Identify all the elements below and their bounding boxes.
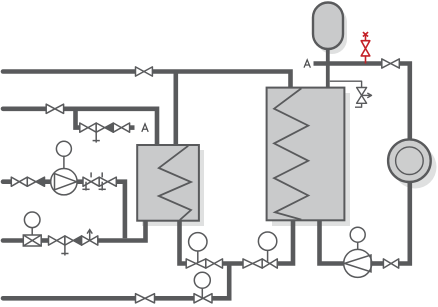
- pump P1 (left circulation pump): [51, 169, 77, 195]
- drain stem, pump row valve 1: [82, 182, 89, 191]
- wire: bottom return row right segment joining junction: [212, 296, 232, 301]
- safety valve (red): [361, 32, 370, 63]
- check valve, pump row: [27, 177, 44, 186]
- wire: pump row after valves, elbow down to strainer row: [116, 182, 125, 239]
- wire: branch from R2 down to bypass row A: [76, 109, 80, 128]
- sensor above pump P2: [350, 227, 365, 249]
- wire: junction down to bottom return row: [227, 264, 232, 299]
- wire: top primary supply pipe R1 left segment: [3, 69, 136, 74]
- wire: bypass row A stub between valves and label A: [130, 125, 135, 130]
- differential pressure relief valve: [330, 81, 372, 107]
- wire: pump to valve segment: [372, 261, 384, 266]
- shadow of expansion vessel: [317, 7, 347, 54]
- pump P2 (right circulation pump): [344, 249, 372, 277]
- wire: R1 right segment with elbow down to big HX top-left port: [152, 72, 290, 89]
- shadow of big heat exchanger: [272, 93, 350, 226]
- valve on strainer row: [49, 236, 65, 245]
- valve 2 right cluster: [262, 259, 277, 268]
- strainer / meter box: [23, 235, 41, 246]
- wire: expansion vessel stem down to big HX top-right port: [326, 44, 330, 89]
- wire: pump row pump to first valve: [77, 179, 83, 184]
- wire: pump row between check valve and pump: [45, 179, 53, 184]
- check valve on bypass row A: [96, 123, 113, 132]
- valve on bottom return row: [136, 294, 155, 303]
- valve on second pipe R2: [46, 104, 63, 113]
- valve 1 on bypass row A: [80, 123, 96, 132]
- wire: pump row start stub: [3, 179, 11, 184]
- wire: bottom return row between valves: [155, 296, 195, 301]
- wire: valve row right segment, elbow up to big HX bottom-left port: [277, 220, 293, 263]
- valve stem tick above, pump row valve 2: [101, 172, 103, 177]
- balancing valve 2 after pump: [99, 177, 116, 186]
- wire: tee branch from R1 down to small HX top-right port: [174, 72, 179, 146]
- valve after pump P2: [383, 259, 398, 268]
- wire: valve row segment between clusters: [223, 261, 244, 266]
- check valve on strainer row: [65, 236, 82, 245]
- wire: strainer row start stub: [3, 238, 23, 243]
- wire: second pipe R2 left segment: [3, 107, 46, 112]
- wire: top pipe R0 from label A to valve: [314, 61, 382, 66]
- valve 1 left cluster: [186, 259, 206, 268]
- small heat exchanger: [137, 145, 199, 221]
- valve 1 right cluster: [243, 259, 262, 268]
- air vent arrow: [87, 230, 92, 241]
- drain stem on strainer row: [61, 236, 68, 256]
- valve stem tick above, pump row valve 1: [90, 172, 92, 177]
- wire: small HX bottom-right port down, elbow right into valve row: [180, 221, 187, 264]
- shadow of circulator circle: [394, 146, 437, 189]
- valve on top pipe R1: [136, 67, 153, 76]
- drain stem on bypass row A: [93, 123, 100, 143]
- sensor above right valve cluster: [258, 232, 276, 264]
- wire: bottom return row left segment: [3, 296, 136, 301]
- wire: big HX bottom-right port down, elbow right to pump: [320, 220, 345, 263]
- shadow of small heat exchanger: [142, 150, 204, 226]
- big heat exchanger: [267, 88, 345, 221]
- vent valve on strainer row: [82, 236, 98, 245]
- valve before check, pump row: [11, 177, 27, 186]
- balancing valve 1 after pump: [83, 177, 99, 186]
- sensor above left valve cluster: [189, 233, 207, 264]
- label A (bypass): [142, 124, 148, 132]
- expansion vessel: [313, 3, 343, 50]
- drain stem, pump row valve 2: [99, 182, 106, 191]
- valve 2 on bypass row A: [113, 123, 129, 132]
- sensor above pump P1: [56, 141, 71, 168]
- valve with sensor on bottom return row: [194, 294, 212, 303]
- valve on top pipe R0: [382, 59, 400, 68]
- circulator / heat source circle: [388, 139, 431, 182]
- valve 2 left cluster: [206, 259, 223, 268]
- wire: strainer row between strainer and valve: [41, 238, 48, 243]
- wire: R2 right segment with elbow down to small HX top-left port: [64, 109, 157, 146]
- sensor above bottom return valve: [194, 272, 210, 298]
- sensor above strainer: [24, 212, 40, 235]
- label A (top): [304, 60, 310, 68]
- wire: after valve, elbow up through circulator to top pipe R0: [399, 64, 410, 264]
- wire: strainer row after vent valve, elbow up to small HX bottom-left port: [98, 221, 146, 241]
